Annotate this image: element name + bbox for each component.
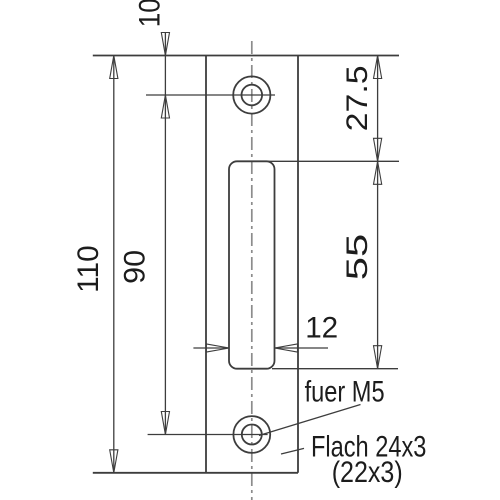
arrow 110 bottom (down) bbox=[110, 450, 118, 473]
svg-text:27.5: 27.5 bbox=[341, 65, 374, 131]
top hole outer circle bbox=[233, 76, 270, 113]
arrow 27.5 top (up) bbox=[374, 56, 382, 79]
svg-text:55: 55 bbox=[341, 234, 374, 281]
extension line through top hole center bbox=[146, 94, 275, 96]
svg-text:110: 110 bbox=[72, 245, 105, 293]
plate left edge bbox=[205, 56, 207, 473]
arrow 55 top (up) bbox=[374, 161, 382, 184]
dimension line 110 bbox=[113, 56, 115, 473]
svg-text:fuer M5: fuer M5 bbox=[305, 376, 385, 409]
arrow 12 right (pointing left) bbox=[275, 344, 298, 352]
plate top edge (with extension) bbox=[93, 55, 399, 57]
arrow 10 top (down, outside) bbox=[161, 33, 169, 56]
arrow 10/90 shared (up at hole center) bbox=[161, 95, 169, 118]
svg-text:12: 12 bbox=[305, 311, 338, 344]
extension line through bottom hole center bbox=[148, 434, 268, 436]
bottom hole outer circle bbox=[233, 416, 270, 453]
leader Flach bbox=[281, 448, 304, 454]
dimension line 27.5 and 55 bbox=[377, 56, 379, 369]
extension line at slot bottom bbox=[272, 368, 398, 370]
arrow 55 bottom (down) bbox=[374, 346, 382, 369]
extension line at slot top bbox=[236, 160, 399, 162]
arrow 90 bottom (down) bbox=[161, 412, 169, 435]
arrow 110 top (up) bbox=[110, 56, 118, 79]
top hole inner circle bbox=[242, 85, 263, 106]
slot (rounded slot cutout) bbox=[229, 161, 275, 368]
arrow 27.5 bottom (down) bbox=[374, 138, 382, 161]
arrow 12 left (pointing right) bbox=[206, 344, 229, 352]
plate bottom edge (with extension) bbox=[93, 472, 298, 474]
leader fuer M5 bbox=[259, 405, 361, 436]
plate right edge bbox=[297, 56, 299, 473]
svg-text:10: 10 bbox=[134, 0, 167, 27]
dimension line 12 right part bbox=[275, 347, 329, 349]
dimension line 12 left part bbox=[193, 347, 229, 349]
dimension line 90 and 10 bbox=[164, 33, 166, 435]
centerline (vertical dash-dot axis) bbox=[251, 41, 253, 500]
bottom hole inner circle bbox=[242, 425, 262, 445]
svg-text:(22x3): (22x3) bbox=[332, 456, 403, 489]
svg-text:90: 90 bbox=[119, 250, 152, 284]
